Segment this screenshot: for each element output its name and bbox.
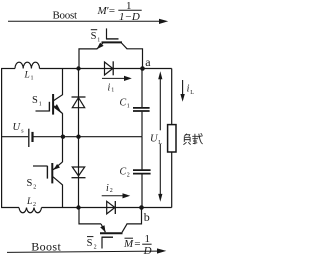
- arrow Boost direction (top): [8, 20, 160, 22]
- transistor S1bar gate stub: [106, 28, 108, 39]
- svg-text:S: S: [32, 95, 38, 106]
- transistor S2 gate bar: [46, 166, 48, 179]
- wire top rail segment right of L1: [40, 68, 172, 70]
- transistor S2bar collector lead: [122, 224, 127, 233]
- svg-text:M′=: M′=: [97, 5, 116, 17]
- svg-text:Boost: Boost: [53, 10, 78, 22]
- label i2: [106, 183, 113, 194]
- capacitor C1: [141, 69, 143, 108]
- svg-text:2: 2: [33, 185, 36, 191]
- diode antiparallel with S1: [78, 69, 80, 138]
- svg-text:D: D: [143, 245, 152, 256]
- diode D2: [107, 201, 115, 214]
- junction dot top rail: [76, 66, 80, 70]
- junction dot diode column / middle rail: [76, 135, 80, 139]
- transistor S2bar body bar: [100, 232, 123, 234]
- wire load top: [171, 69, 173, 125]
- fraction bar (top formula): [118, 9, 141, 11]
- transistor S1bar gate bar: [106, 38, 119, 40]
- wire top rail segment left: [1, 68, 15, 70]
- transistor S2bar left wire from bottom rail: [79, 208, 101, 224]
- svg-text:i: i: [106, 183, 109, 194]
- load box: [168, 125, 176, 152]
- svg-text:2: 2: [127, 173, 130, 179]
- battery Us long plate: [28, 129, 30, 147]
- fraction bar (bottom formula): [142, 243, 151, 245]
- svg-text:C: C: [120, 98, 127, 109]
- svg-text:L: L: [26, 197, 32, 207]
- arrow UL voltage (double headed): [159, 75, 161, 198]
- wire middle rail right: [33, 136, 142, 138]
- svg-text:L: L: [24, 71, 30, 81]
- svg-text:1: 1: [31, 76, 34, 82]
- svg-text:b: b: [144, 210, 150, 224]
- wire bottom rail right of L2: [42, 207, 172, 209]
- diode D1: [105, 62, 113, 75]
- node b: [139, 205, 144, 210]
- svg-text:L: L: [190, 90, 194, 96]
- svg-text:U: U: [13, 122, 22, 133]
- svg-text:Boost: Boost: [31, 239, 61, 253]
- transistor S2bar emitter lead with arrow: [101, 224, 105, 232]
- label L1: [24, 71, 34, 82]
- svg-text:1: 1: [127, 104, 130, 110]
- transistor S2bar gate stub: [101, 237, 103, 248]
- transistor S1 gate lead: [36, 110, 50, 112]
- svg-text:1: 1: [39, 102, 42, 108]
- svg-text:S: S: [91, 31, 97, 42]
- inductor L2: [19, 208, 42, 213]
- transistor S2 collector lead: [53, 177, 63, 208]
- transistor S2bar gate bar: [102, 236, 114, 238]
- label UL: [155, 130, 164, 144]
- svg-text:C: C: [120, 167, 127, 178]
- node a: [140, 66, 145, 71]
- battery Us short plate: [31, 132, 33, 142]
- svg-text:a: a: [145, 55, 151, 69]
- current arrow iL: [182, 80, 184, 95]
- wire S1bar right to node a: [127, 49, 143, 69]
- junction dot diode column / bottom rail: [76, 205, 80, 209]
- wire load bottom: [171, 152, 173, 208]
- label L2: [26, 197, 36, 208]
- svg-text:S: S: [87, 238, 93, 249]
- label S2bar: [87, 238, 97, 251]
- label Us: [13, 122, 25, 135]
- transistor S1 emitter lead with arrow: [54, 106, 63, 114]
- transistor S1 body bar: [52, 94, 54, 115]
- svg-text:2: 2: [33, 202, 36, 208]
- transistor S1bar emitter lead with arrow: [97, 43, 103, 49]
- inductor L1: [15, 62, 40, 68]
- label S2: [27, 178, 37, 191]
- label S1bar: [91, 31, 101, 43]
- transistor S1bar collector lead: [122, 43, 128, 49]
- wire S1bar left: [79, 49, 97, 69]
- wire middle rail left: [1, 136, 28, 138]
- transistor S1 collector lead: [54, 69, 63, 101]
- svg-text:M=: M=: [123, 238, 141, 250]
- wire bottom rail segment left: [1, 207, 19, 209]
- transistor S1bar body bar: [102, 41, 123, 43]
- label i1: [108, 83, 115, 94]
- label load (fu zai): [183, 133, 202, 145]
- label C1: [120, 98, 130, 110]
- transistor S2 emitter lead with arrow: [53, 162, 63, 170]
- svg-text:1: 1: [97, 37, 100, 43]
- svg-text:1: 1: [111, 88, 114, 94]
- label iL: [187, 84, 195, 97]
- diode antiparallel with S2: [78, 137, 80, 208]
- junction dot S1 emitter / middle rail: [61, 135, 65, 139]
- svg-text:1: 1: [145, 233, 151, 245]
- wire left rail: [1, 69, 3, 208]
- svg-text:S: S: [27, 178, 33, 189]
- transistor S1 gate bar: [48, 102, 50, 112]
- svg-text:i: i: [108, 83, 111, 94]
- arrow Boost direction (bottom): [7, 251, 158, 252]
- formula M'=1/(1-D) (top): [97, 0, 140, 23]
- current arrow i1: [102, 77, 127, 79]
- label S1: [32, 95, 42, 108]
- transistor S2 gate lead: [33, 165, 47, 167]
- svg-text:s: s: [21, 129, 24, 135]
- svg-text:L: L: [158, 140, 162, 146]
- transistor S2 body bar: [51, 163, 53, 183]
- wire S2bar right to node b: [127, 208, 142, 224]
- svg-text:i: i: [187, 84, 190, 95]
- svg-text:2: 2: [94, 245, 97, 251]
- current arrow i2: [102, 195, 126, 197]
- svg-text:2: 2: [110, 188, 113, 194]
- formula Mbar=1/D (bottom): [123, 233, 152, 256]
- capacitor C2: [141, 137, 143, 170]
- label C2: [120, 167, 130, 179]
